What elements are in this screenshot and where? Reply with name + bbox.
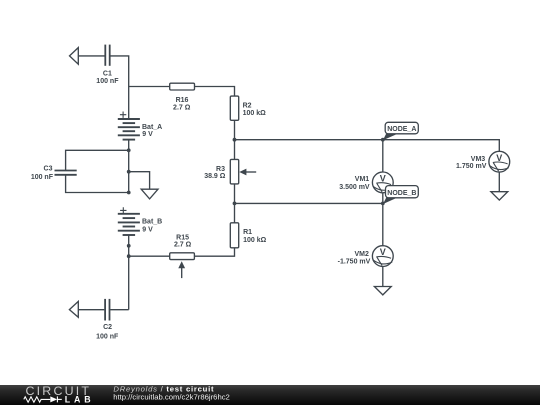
voltmeter VM3 (489, 151, 510, 172)
wire (128, 140, 130, 193)
svg-text:V: V (380, 247, 386, 257)
svg-text:R16: R16 (176, 97, 189, 104)
svg-text:100 nF: 100 nF (96, 78, 119, 85)
junction (127, 254, 131, 258)
junction (381, 138, 385, 142)
wire (234, 120, 236, 139)
resistor R1 (230, 223, 238, 248)
resistor R15 (170, 253, 195, 260)
svg-text:-1.750 mV: -1.750 mV (338, 259, 371, 266)
wire (129, 86, 170, 88)
svg-text:R3: R3 (216, 166, 225, 173)
svg-text:VM2: VM2 (354, 251, 369, 258)
svg-text:3.500 mV: 3.500 mV (339, 184, 370, 191)
svg-text:2.7 Ω: 2.7 Ω (173, 105, 191, 112)
svg-text:2.7 Ω: 2.7 Ω (174, 241, 192, 248)
wiper arrow of R15 (178, 261, 185, 278)
junction (127, 191, 131, 195)
junction (233, 202, 237, 206)
left rail wire (128, 87, 130, 120)
battery Bat_A plus sign (120, 112, 126, 118)
capacitor C2 (105, 299, 109, 321)
wire (129, 255, 170, 257)
wire (234, 140, 236, 160)
capacitor C3 (55, 171, 77, 175)
wire (110, 56, 128, 87)
svg-text:LAB: LAB (65, 395, 91, 405)
battery Bat_B (118, 214, 140, 235)
wire (234, 184, 236, 204)
svg-text:V: V (496, 153, 502, 163)
svg-text:C1: C1 (103, 71, 112, 78)
svg-text:100 nF: 100 nF (31, 174, 54, 181)
capacitor C1 (105, 45, 109, 66)
svg-text:38.9 Ω: 38.9 Ω (204, 173, 226, 180)
svg-text:VM3: VM3 (471, 156, 486, 163)
wire (234, 203, 236, 222)
battery Bat_B plus sign (120, 207, 126, 213)
voltmeter VM2 (372, 246, 393, 267)
svg-text:R1: R1 (243, 229, 252, 236)
battery Bat_A (118, 119, 140, 140)
ground (374, 287, 391, 295)
svg-text:http://circuitlab.com/c2k7r86j: http://circuitlab.com/c2k7r86jr6hc2 (113, 393, 230, 402)
wire (195, 87, 235, 97)
svg-text:Bat_B: Bat_B (142, 218, 162, 225)
node NODE_B flag (383, 186, 418, 204)
wire node A horizontal (235, 140, 500, 152)
svg-text:1.750 mV: 1.750 mV (456, 163, 487, 170)
svg-text:9 V: 9 V (142, 227, 153, 234)
wire (128, 235, 130, 310)
wire ground stub (129, 172, 150, 190)
wire C3 loop top (66, 150, 129, 170)
wire (194, 248, 234, 256)
junction (233, 138, 237, 142)
port arrow bottom-left (69, 301, 78, 317)
junction (127, 148, 131, 152)
svg-text:100 kΩ: 100 kΩ (243, 110, 267, 117)
ground (491, 192, 508, 200)
voltmeter VM1 (372, 172, 393, 193)
svg-text:V: V (380, 174, 386, 184)
wire C3 loop bottom (66, 175, 129, 192)
svg-text:100 nF: 100 nF (96, 334, 119, 341)
wire (382, 193, 384, 246)
junction (127, 170, 131, 174)
node NODE_A flag (383, 122, 418, 140)
wire (498, 172, 500, 192)
ground (141, 189, 158, 199)
svg-text:NODE_B: NODE_B (387, 190, 416, 197)
resistor R2 (230, 96, 238, 120)
svg-text:C3: C3 (44, 166, 53, 173)
wire (382, 140, 384, 172)
wire node B horizontal (235, 202, 383, 204)
wire (110, 309, 129, 311)
junction (381, 202, 385, 206)
svg-text:Bat_A: Bat_A (142, 124, 162, 131)
footer banner (0, 384, 540, 405)
resistor R3 (230, 159, 238, 184)
resistor R16 (170, 83, 195, 90)
svg-text:R2: R2 (243, 103, 252, 110)
svg-text:VM1: VM1 (355, 176, 370, 183)
wire (78, 309, 104, 311)
port arrow top-left (70, 48, 79, 65)
wire (78, 55, 104, 57)
svg-text:NODE_A: NODE_A (387, 126, 416, 133)
svg-text:C2: C2 (103, 324, 112, 331)
svg-text:9 V: 9 V (142, 131, 153, 138)
junction (127, 244, 131, 248)
logo resistor zigzag and diode (24, 396, 62, 402)
wire (382, 267, 384, 287)
svg-text:100 kΩ: 100 kΩ (243, 237, 267, 244)
wiper arrow of R3 (239, 169, 256, 176)
